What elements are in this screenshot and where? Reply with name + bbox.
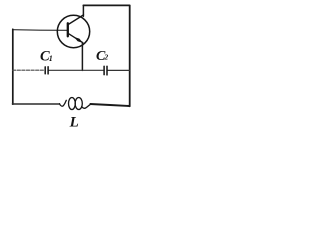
wire: right rail vertical [129,6,131,107]
svg-text:L: L [69,114,79,130]
transistor Q1 circle [57,15,89,47]
capacitor C1 plates [44,67,46,74]
wire: collector vertical drop [82,5,84,16]
svg-text:1: 1 [49,54,53,63]
wire: bottom right segment [90,104,129,106]
transistor base bar [67,23,69,36]
wire: bottom left segment [12,103,59,105]
wire: left rail vertical [12,29,14,104]
wire: base lead from left rail to transistor base bar [13,29,67,32]
wire: middle horizontal left of C1 [13,69,45,71]
wire: top lead from collector to right rail [83,4,129,6]
transistor emitter diagonal with arrow [68,33,83,43]
transistor collector diagonal [68,15,84,25]
wire: middle horizontal right of C2 [108,69,130,71]
inductor L coil [60,98,91,110]
capacitor C2 plates [103,66,105,74]
wire: middle horizontal C1 to C2 [49,69,103,71]
wire: emitter vertical down to C1-C2 junction [81,43,83,71]
svg-text:2: 2 [103,53,108,62]
